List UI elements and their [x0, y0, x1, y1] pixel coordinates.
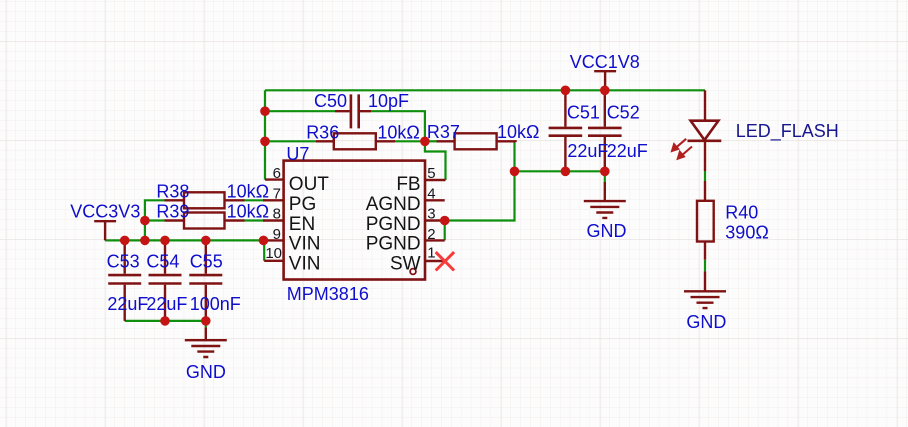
pin 7 stub	[263, 199, 284, 201]
capacitor C50 leads	[335, 110, 371, 112]
junction top rail at C52 / VCC1V8	[600, 86, 610, 96]
resistor R39 body	[184, 213, 225, 229]
pin 8 stub	[263, 219, 284, 221]
wire LED cathode to R40	[704, 171, 706, 181]
svg-text:C55: C55	[190, 252, 223, 272]
svg-text:10: 10	[265, 245, 282, 262]
svg-text:U7: U7	[286, 144, 309, 164]
svg-text:AGND: AGND	[366, 194, 421, 215]
junction bottom rail at C55 / GND	[201, 316, 211, 326]
svg-text:R37: R37	[427, 122, 460, 142]
junction PGND wire at R37 branch	[510, 167, 520, 177]
LED D cathode stub	[704, 141, 706, 171]
wire left vertical from top rail to U7 pin 6	[264, 90, 266, 179]
capacitor C53 plates	[108, 275, 141, 283]
resistor R36 leads	[316, 140, 395, 142]
resistor R40 leads	[704, 181, 706, 291]
svg-text:SW: SW	[390, 254, 421, 275]
wire R39 right lead to pin 8	[245, 219, 266, 221]
no-connect X on pin 1	[436, 252, 454, 270]
junction R38 R39 left	[140, 216, 150, 226]
svg-text:PG: PG	[289, 194, 316, 215]
svg-text:390Ω: 390Ω	[725, 223, 769, 243]
LED D cathode bar	[688, 140, 722, 143]
junction VIN rail at C55	[201, 236, 211, 246]
pin 6 stub	[265, 178, 284, 180]
pin 1 stub	[425, 260, 446, 262]
pin 10 stub	[264, 260, 283, 262]
power symbol VCC3V3	[94, 221, 116, 240]
capacitor C52 plates	[588, 128, 622, 136]
svg-text:VCC3V3: VCC3V3	[70, 202, 140, 222]
junction R36 row at left vertical	[260, 137, 270, 147]
junction top rail at C51	[561, 86, 571, 96]
LED D triangle	[691, 121, 719, 140]
svg-text:22uF: 22uF	[107, 294, 148, 314]
svg-text:R40: R40	[725, 202, 758, 222]
wire C50 right segment to FB junction	[371, 111, 425, 141]
pin 3 stub	[425, 219, 445, 221]
resistor R40 body	[697, 201, 714, 242]
capacitor C50 plates	[351, 94, 359, 128]
wire R39 left lead to junction	[145, 219, 165, 221]
resistor R38 body	[184, 192, 225, 208]
capacitor C54 leads	[164, 240, 166, 321]
resistor R37 leads	[437, 140, 516, 143]
wire PGND branch to C51 C52 bottom rail	[515, 170, 605, 172]
wire R37 right down to PGND row	[445, 141, 515, 220]
svg-text:GND: GND	[587, 221, 627, 241]
junction C50 row at left vertical	[260, 106, 270, 116]
svg-text:C52: C52	[607, 103, 640, 123]
svg-text:C53: C53	[107, 252, 140, 272]
svg-text:LED_FLASH: LED_FLASH	[736, 121, 839, 142]
op-amp U7 MPM3816 body	[284, 161, 425, 280]
wire top rail VCC1V8 net	[265, 89, 705, 91]
LED light emission arrows	[671, 139, 692, 160]
svg-text:VIN: VIN	[289, 234, 321, 255]
wire below C55 to GND	[205, 321, 207, 328]
capacitor C53 leads	[123, 240, 125, 321]
capacitor C51 leads	[564, 90, 566, 171]
wire C53 C54 C55 bottom ground rail	[125, 320, 206, 322]
svg-text:4: 4	[427, 185, 435, 202]
svg-text:VCC1V8: VCC1V8	[570, 52, 640, 72]
wire R36 left segment	[265, 140, 316, 142]
ground symbol below C55	[185, 328, 227, 358]
resistor R37 body	[455, 133, 497, 149]
power symbol VCC1V8	[594, 71, 616, 90]
svg-text:100nF: 100nF	[190, 294, 241, 314]
junction VIN rail at C53	[120, 236, 130, 246]
wire U7 pin 2 to pin 3 vertical	[444, 221, 446, 241]
svg-text:9: 9	[273, 226, 281, 243]
wire VIN rail VCC3V3 net	[105, 239, 263, 241]
wire pin 9 to pin 10 vertical	[263, 240, 265, 260]
wire R38 right lead to pin 7	[245, 199, 266, 201]
resistor R38 leads	[165, 199, 245, 201]
svg-text:R39: R39	[156, 201, 189, 221]
svg-text:3: 3	[427, 206, 435, 223]
svg-text:10pF: 10pF	[368, 91, 409, 111]
junction C52 bottom / GND	[600, 167, 610, 177]
svg-text:EN: EN	[289, 214, 315, 235]
wire R38 left lead down to VIN rail	[145, 200, 165, 240]
pin 5 stub	[425, 179, 446, 181]
svg-text:8: 8	[273, 206, 281, 223]
wire below C52 to GND	[604, 171, 606, 182]
junction bottom rail at C54	[160, 316, 170, 326]
svg-text:PGND: PGND	[366, 234, 421, 255]
svg-text:1: 1	[427, 244, 435, 261]
wire junction to U7 pin 5 FB jog	[425, 141, 446, 180]
svg-text:PGND: PGND	[366, 214, 421, 235]
svg-text:10kΩ: 10kΩ	[227, 201, 269, 221]
ground symbol below C52	[584, 182, 626, 218]
wire R37 left segment from junction	[425, 140, 437, 142]
resistor R36 body	[334, 133, 376, 149]
wire R36 right segment to junction	[395, 140, 425, 142]
svg-text:7: 7	[273, 185, 281, 202]
junction C51 bottom	[561, 167, 571, 177]
wire R40 to GND	[704, 260, 706, 272]
svg-text:22uF: 22uF	[146, 294, 187, 314]
wire C50 row left segment	[265, 110, 335, 112]
capacitor C55 plates	[189, 275, 222, 283]
svg-text:OUT: OUT	[289, 174, 330, 195]
capacitor C51 plates	[549, 128, 583, 136]
svg-text:10kΩ: 10kΩ	[497, 122, 539, 142]
pin SW bubble	[410, 269, 416, 275]
svg-text:R36: R36	[306, 123, 339, 143]
LED D anode stub	[704, 90, 706, 120]
svg-text:VIN: VIN	[289, 254, 321, 275]
svg-text:22uF: 22uF	[607, 141, 648, 161]
svg-text:C54: C54	[146, 252, 179, 272]
svg-text:C50: C50	[314, 91, 347, 111]
svg-text:22uF: 22uF	[567, 141, 608, 161]
svg-text:FB: FB	[396, 174, 420, 195]
junction VIN rail at pin 9	[259, 236, 269, 246]
svg-text:MPM3816: MPM3816	[287, 284, 369, 304]
svg-text:GND: GND	[686, 312, 726, 332]
pin 9 stub	[264, 239, 284, 241]
pin 2 stub	[425, 239, 445, 241]
svg-text:6: 6	[273, 165, 281, 182]
junction VIN rail at R38 R39 vertical	[140, 236, 150, 246]
svg-text:2: 2	[427, 226, 435, 243]
ground symbol below R40	[684, 291, 726, 309]
resistor R39 leads	[165, 219, 245, 221]
svg-text:5: 5	[427, 165, 435, 182]
svg-text:R38: R38	[156, 181, 189, 201]
capacitor C52 leads	[604, 90, 606, 171]
svg-text:10kΩ: 10kΩ	[227, 181, 269, 201]
capacitor C54 plates	[149, 275, 182, 283]
svg-text:10kΩ: 10kΩ	[377, 123, 419, 143]
pin 4 stub	[425, 199, 445, 201]
svg-text:GND: GND	[186, 362, 226, 382]
capacitor C55 leads	[205, 240, 207, 321]
svg-text:C51: C51	[567, 103, 600, 123]
junction VIN rail at C54	[160, 236, 170, 246]
junction R36 R37 FB node	[420, 137, 430, 147]
junction pin 3 PGND	[440, 216, 450, 226]
